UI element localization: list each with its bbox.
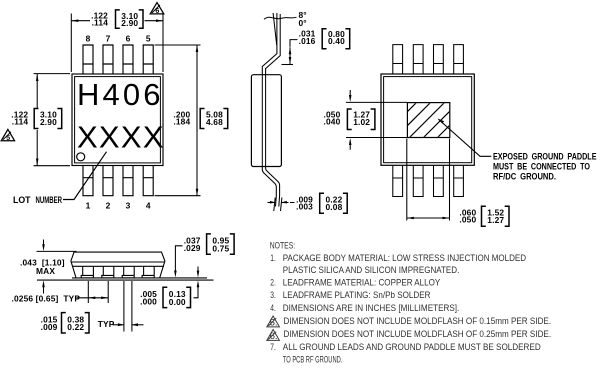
dim .005/.000 standoff	[194, 267, 199, 298]
svg-text:.114: .114	[12, 117, 29, 127]
svg-text:DIMENSION DOES NOT INCLUDE MOL: DIMENSION DOES NOT INCLUDE MOLDFLASH OF …	[284, 329, 552, 340]
dim .060/.050 arrows	[407, 217, 414, 220]
svg-text:6: 6	[126, 34, 131, 44]
dim .015/.009 lead width	[113, 281, 144, 332]
svg-text:.003: .003	[296, 202, 313, 212]
svg-text:.009: .009	[41, 322, 58, 332]
fv lead 3	[122, 266, 134, 278]
svg-text:2.90: 2.90	[121, 18, 138, 28]
pin 4	[143, 166, 153, 196]
dim .200 right: arrows	[196, 45, 199, 52]
dim .031/.016 hook and arrows	[282, 40, 298, 65]
svg-text:3.: 3.	[270, 290, 276, 301]
flag triangle 5 (left)	[1, 129, 14, 140]
svg-text:3: 3	[126, 200, 131, 210]
dim .122 top: extension lines	[71, 14, 163, 73]
side view lead plane lines	[262, 75, 265, 167]
svg-text:DIMENSIONS ARE IN INCHES [MILL: DIMENSIONS ARE IN INCHES [MILLIMETERS].	[283, 303, 460, 314]
svg-text:.0256 [0.65] TYP: .0256 [0.65] TYP	[12, 294, 81, 304]
svg-text:PACKAGE BODY MATERIAL: LOW STR: PACKAGE BODY MATERIAL: LOW STRESS INJECT…	[283, 253, 526, 264]
front view belt lines	[71, 261, 164, 263]
svg-text:0.00: 0.00	[169, 297, 186, 307]
svg-text:1: 1	[86, 200, 91, 210]
svg-text:NOTES:: NOTES:	[270, 240, 296, 251]
bv pin bottom 3	[434, 166, 444, 197]
svg-text:.040: .040	[323, 117, 340, 127]
pin 7	[103, 45, 113, 74]
svg-text:2: 2	[106, 200, 111, 210]
svg-text:1.02: 1.02	[353, 117, 370, 127]
seating plane line	[37, 279, 214, 281]
svg-text:RF/DC GROUND.: RF/DC GROUND.	[493, 171, 556, 181]
bottom view body outer	[381, 74, 474, 165]
svg-text:.029: .029	[184, 243, 201, 253]
svg-text:MAX: MAX	[36, 266, 55, 276]
dim .122 left: extension lines	[34, 74, 71, 166]
dim .122 top: arrows	[71, 19, 78, 22]
svg-text:.050: .050	[459, 215, 476, 225]
bv pin top 1	[393, 45, 403, 74]
fv lead 2	[102, 266, 114, 278]
pin1 indicator circle	[77, 153, 85, 161]
svg-text:NUMBER: NUMBER	[36, 195, 63, 205]
pin 1	[83, 166, 93, 196]
lead bottom line	[72, 277, 207, 279]
pin 2	[103, 166, 113, 196]
svg-text:.000: .000	[140, 297, 157, 307]
exposed paddle note text	[493, 151, 597, 181]
svg-text:XXXX: XXXX	[77, 120, 165, 155]
svg-text:.016: .016	[299, 36, 316, 46]
svg-text:2.90: 2.90	[40, 117, 57, 127]
paddle hatch	[381, 103, 487, 139]
bv pin top 3	[434, 45, 444, 74]
svg-text:7.: 7.	[270, 342, 276, 353]
svg-text:7: 7	[106, 34, 111, 44]
svg-text:0.08: 0.08	[326, 202, 343, 212]
dim .050/.040 arrows	[349, 95, 352, 102]
svg-text:5: 5	[6, 135, 10, 142]
svg-text:LEADFRAME MATERIAL: COPPER ALL: LEADFRAME MATERIAL: COPPER ALLOY	[283, 278, 441, 289]
svg-text:2.: 2.	[270, 278, 276, 289]
top view body inner	[75, 77, 161, 163]
pin 8	[83, 45, 93, 74]
dim .060/.050 extension lines	[407, 139, 450, 221]
svg-text:.184: .184	[173, 117, 190, 127]
svg-text:TO PCB RF GROUND.: TO PCB RF GROUND.	[283, 354, 343, 365]
fv lead 4	[142, 266, 154, 278]
svg-text:H406: H406	[77, 77, 164, 112]
bv pin top 4	[454, 45, 464, 74]
svg-text:4.68: 4.68	[206, 117, 223, 127]
svg-text:4.: 4.	[270, 303, 276, 314]
lot number leader	[63, 152, 107, 200]
svg-text:MUST BE CONNECTED TO: MUST BE CONNECTED TO	[493, 161, 590, 171]
bv pin bottom 4	[454, 166, 464, 197]
bv pin top 2	[413, 45, 423, 74]
svg-text:ALL GROUND LEADS AND GROUND PA: ALL GROUND LEADS AND GROUND PADDLE MUST …	[283, 342, 541, 353]
svg-text:1.27: 1.27	[487, 215, 504, 225]
bv pin bottom 1	[393, 166, 403, 197]
dim .0256 pitch	[77, 281, 109, 303]
side view bottom lead	[262, 167, 279, 207]
lead angle arc	[264, 17, 297, 19]
svg-text:EXPOSED GROUND PADDLE: EXPOSED GROUND PADDLE	[493, 151, 597, 161]
dim .122 left: arrows	[36, 74, 39, 81]
dim .009/.003 ticks and arrows	[268, 198, 295, 212]
svg-text:1.: 1.	[270, 253, 276, 264]
svg-text:TYP: TYP	[98, 319, 115, 329]
side view top lead	[262, 13, 280, 75]
note 5 flag triangle	[267, 316, 280, 327]
note 6 flag triangle	[267, 330, 280, 341]
svg-text:5.: 5.	[270, 318, 278, 329]
svg-text:LEADFRAME PLATING: Sn/Pb SOLDE: LEADFRAME PLATING: Sn/Pb SOLDER	[283, 290, 431, 301]
bv pin bottom 2	[413, 166, 423, 197]
front view body outline	[37, 252, 214, 280]
paddle leader	[439, 119, 492, 156]
top view body outer	[72, 74, 163, 166]
svg-text:DIMENSION DOES NOT INCLUDE MOL: DIMENSION DOES NOT INCLUDE MOLDFLASH OF …	[284, 316, 552, 327]
svg-text:0°: 0°	[299, 18, 307, 28]
svg-text:0.75: 0.75	[212, 243, 229, 253]
dim .050/.040 extension lines	[346, 90, 407, 150]
pin 6	[123, 45, 133, 74]
svg-text:6.: 6.	[270, 331, 278, 342]
svg-text:0.22: 0.22	[67, 322, 84, 332]
svg-text:PLASTIC SILICA AND SILICON IMP: PLASTIC SILICA AND SILICON IMPREGNATED.	[283, 265, 460, 276]
dim .043	[37, 240, 77, 294]
dim .200 right: extension lines	[155, 45, 201, 196]
pin 5	[143, 45, 153, 74]
svg-text:8: 8	[86, 34, 91, 44]
svg-text:4: 4	[146, 200, 151, 210]
svg-text:6: 6	[155, 8, 159, 15]
bottom view body inner	[384, 77, 472, 163]
flag triangle 6 (top)	[150, 3, 164, 14]
dim .037/.029	[175, 246, 182, 271]
side view body	[251, 75, 281, 167]
svg-text:.114: .114	[92, 17, 109, 27]
exposed paddle	[407, 103, 449, 138]
svg-text:5: 5	[146, 34, 151, 44]
pin 3	[123, 166, 133, 196]
svg-text:0.40: 0.40	[328, 36, 345, 46]
fv lead 1	[81, 266, 93, 278]
svg-text:LOT: LOT	[13, 195, 31, 205]
